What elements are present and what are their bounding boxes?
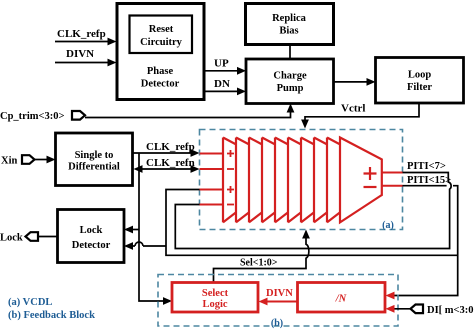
svg-text:Loop: Loop	[408, 70, 432, 81]
svg-text:CLK_refn: CLK_refn	[146, 157, 195, 169]
wire DI to /N	[386, 305, 411, 313]
block select logic	[172, 283, 258, 313]
svg-text:DIVN: DIVN	[266, 288, 293, 299]
VCDL delay stage 9	[327, 138, 340, 223]
block /N divider	[298, 283, 386, 313]
svg-text:CLK_refp: CLK_refp	[57, 28, 106, 40]
output pin Lock	[0, 232, 58, 243]
svg-text:Replica: Replica	[272, 13, 307, 24]
wire UP phase detector to charge pump	[205, 58, 247, 75]
wire replica bias to charge pump	[289, 45, 291, 60]
stage1 minus mark upper	[227, 168, 234, 170]
VCDL input stub CLK_refn	[200, 168, 224, 170]
svg-text:Lock: Lock	[0, 233, 23, 244]
svg-text:Xin: Xin	[1, 156, 18, 167]
dashed box (b) feedback block	[158, 275, 398, 330]
wire CLK_refp single-to-differential to VCDL	[133, 141, 200, 157]
svg-text:Bias: Bias	[279, 26, 298, 37]
svg-text:/N: /N	[335, 294, 347, 305]
VCDL input stub CLK_refp	[200, 153, 224, 155]
svg-text:Detector: Detector	[72, 240, 111, 251]
svg-text:Reset: Reset	[149, 24, 174, 35]
svg-text:DIVN: DIVN	[66, 48, 94, 60]
VCDL delay stage 6	[288, 138, 301, 223]
svg-text:DI[ m<3:0>: DI[ m<3:0>	[427, 305, 474, 316]
VCDL output stub PITI<7>	[382, 172, 403, 174]
svg-text:Vctrl: Vctrl	[341, 103, 365, 115]
svg-text:Circuitry: Circuitry	[140, 37, 183, 48]
svg-text:Lock: Lock	[80, 225, 103, 236]
wire Vctrl loop filter to VCDL	[301, 103, 419, 129]
dashed box (a) VCDL	[200, 130, 403, 232]
VCDL output stub PITI<15>	[382, 185, 403, 187]
svg-text:Select: Select	[202, 288, 229, 299]
block charge pump	[246, 59, 334, 104]
svg-text:Pump: Pump	[277, 83, 304, 94]
wire DIVN input to phase detector	[55, 48, 117, 66]
VCDL delay stage 8	[314, 138, 327, 223]
wire charge pump to loop filter	[334, 78, 376, 86]
wire DIVN /N to select logic	[259, 288, 298, 305]
VCDL input stub feedback minus	[200, 204, 224, 206]
input pin Cp_trim<3:0>	[0, 111, 85, 122]
VCDL delay stage 3	[249, 138, 262, 223]
wire PITI<15> feedback to /N and stage1 lower plus input	[166, 175, 458, 299]
VCDL delay stage 4	[262, 138, 275, 223]
wire PITI<7> feedback to stage1 lower minus input	[175, 161, 451, 249]
svg-text:(a) VCDL: (a) VCDL	[8, 297, 52, 308]
svg-text:(b): (b)	[271, 318, 283, 329]
svg-text:Detector: Detector	[141, 79, 180, 90]
block replica bias	[246, 4, 334, 45]
wire Cp_trim to charge pump	[85, 104, 294, 118]
wire CLK_refp branch down to select logic	[139, 153, 172, 305]
VCDL delay stage 7	[301, 138, 314, 223]
stage1 plus mark lower	[227, 186, 234, 193]
wire to lock detector bottom input	[124, 242, 166, 250]
wire to lock detector top input	[124, 226, 139, 234]
output stage minus mark	[364, 186, 377, 188]
wire sel<1:0> select logic to VCDL	[214, 230, 310, 283]
svg-text:PITI<7>: PITI<7>	[407, 161, 446, 172]
VCDL input stub feedback plus	[200, 189, 224, 191]
svg-text:Cp_trim<3:0>: Cp_trim<3:0>	[0, 111, 64, 122]
block lock detector	[58, 210, 125, 263]
stage1 plus mark upper	[227, 150, 234, 157]
VCDL delay stage 2	[236, 138, 249, 223]
block loop filter	[376, 58, 464, 104]
VCDL delay stage 5	[275, 138, 288, 223]
block single to differential	[56, 133, 133, 186]
wire CLK_refn single-to-differential to VCDL	[134, 157, 200, 173]
svg-text:Logic: Logic	[202, 299, 227, 310]
wire Xin to single-to-differential	[35, 156, 56, 164]
input pin DI[ m<3:0>	[411, 305, 474, 317]
svg-text:PITI<15>: PITI<15>	[407, 175, 451, 186]
VCDL delay stage 1	[223, 138, 236, 223]
svg-text:(a): (a)	[382, 220, 394, 231]
stage1 minus mark lower	[227, 204, 234, 206]
block reset circuitry	[130, 16, 193, 54]
svg-text:Charge: Charge	[273, 71, 307, 82]
svg-text:UP: UP	[214, 58, 229, 70]
svg-text:DN: DN	[214, 78, 230, 90]
wire CLK_refp input to phase detector	[55, 28, 117, 45]
svg-text:Differential: Differential	[68, 162, 120, 173]
svg-text:Sel<1:0>: Sel<1:0>	[240, 258, 278, 269]
svg-text:Single to: Single to	[75, 150, 114, 161]
VCDL output stage	[340, 138, 382, 223]
wire DN phase detector to charge pump	[205, 78, 247, 95]
svg-text:(b) Feedback Block: (b) Feedback Block	[8, 310, 95, 321]
block phase detector	[117, 4, 204, 100]
svg-text:Phase: Phase	[147, 66, 174, 77]
svg-text:Filter: Filter	[407, 82, 432, 93]
output stage plus mark	[364, 167, 377, 180]
svg-text:CLK_refp: CLK_refp	[146, 141, 195, 153]
input pin Xin	[1, 155, 35, 166]
